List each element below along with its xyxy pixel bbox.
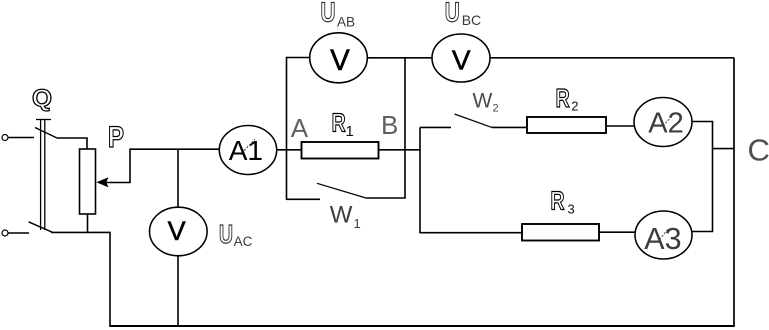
switch W2	[420, 114, 527, 127]
svg-text:R: R	[556, 83, 570, 113]
svg-text:U: U	[219, 221, 233, 249]
switch Q blade bottom	[29, 222, 53, 233]
ammeter A3	[635, 211, 692, 259]
wire R1 to branch	[379, 149, 421, 151]
wire U_BC to right	[490, 57, 734, 59]
voltmeter U_BC	[432, 34, 490, 82]
bottom bus wire	[109, 325, 735, 327]
resistor R1	[302, 142, 379, 159]
terminal bottom-left	[2, 230, 8, 236]
svg-text:AB: AB	[337, 14, 355, 29]
svg-text:P: P	[108, 121, 124, 154]
svg-text:R: R	[332, 108, 346, 138]
svg-text:AC: AC	[234, 234, 253, 249]
wire U_AC bottom	[177, 256, 179, 326]
wire	[8, 137, 34, 139]
wire connector to node C	[713, 148, 735, 150]
wire	[109, 232, 111, 326]
wire to U_AB	[287, 57, 311, 59]
svg-text:A1: A1	[229, 135, 263, 166]
svg-text:C: C	[748, 133, 769, 168]
switch Q link bar	[36, 120, 51, 231]
wire voltmeter U_AC top	[177, 149, 179, 208]
svg-text:R: R	[551, 185, 565, 215]
wire A2 right	[692, 122, 713, 232]
wire R2 to A2	[606, 125, 635, 127]
ammeter A2	[634, 98, 692, 147]
svg-text:U: U	[445, 0, 460, 28]
svg-text:A: A	[291, 113, 309, 143]
svg-text:V: V	[330, 44, 350, 77]
ammeter A1	[219, 126, 276, 175]
wire R3 row	[419, 232, 522, 234]
wire	[8, 232, 29, 234]
voltmeter U_AB	[310, 33, 368, 83]
svg-text:2: 2	[493, 103, 499, 115]
svg-text:3: 3	[568, 202, 575, 217]
voltmeter U_AC	[150, 207, 208, 256]
wire	[57, 138, 87, 149]
wiper arrow of P	[96, 149, 130, 188]
wire R3 to A3	[599, 231, 635, 233]
svg-text:A2: A2	[648, 108, 683, 140]
svg-text:1: 1	[354, 216, 361, 231]
wire main row to A1	[130, 148, 220, 150]
node B vertical wire	[404, 58, 406, 198]
left loop vertical wire (node A)	[286, 57, 288, 200]
wire U_AB to U_BC	[367, 57, 432, 59]
wire A3 right	[692, 231, 713, 233]
svg-text:V: V	[168, 216, 186, 246]
svg-text:BC: BC	[462, 12, 481, 28]
svg-text:Q: Q	[32, 85, 52, 112]
rheostat P	[80, 149, 96, 214]
svg-text:1: 1	[346, 123, 354, 140]
wire A1 to R1	[277, 149, 302, 151]
switch W1	[287, 183, 406, 199]
terminal top-left	[2, 135, 8, 141]
svg-text:W: W	[330, 201, 353, 228]
svg-text:B: B	[381, 110, 398, 140]
svg-text:V: V	[452, 45, 471, 76]
svg-text:U: U	[321, 0, 336, 28]
right vertical wire (node C)	[733, 58, 735, 326]
resistor R2	[527, 117, 606, 133]
wire P bottom	[87, 214, 89, 232]
resistor R3	[522, 224, 599, 241]
svg-text:2: 2	[571, 98, 578, 113]
svg-text:A3: A3	[644, 222, 681, 256]
svg-text:W: W	[473, 90, 493, 113]
wire	[51, 231, 111, 233]
switch Q blade top	[35, 128, 57, 139]
W2 branch vertical wire	[419, 127, 421, 233]
